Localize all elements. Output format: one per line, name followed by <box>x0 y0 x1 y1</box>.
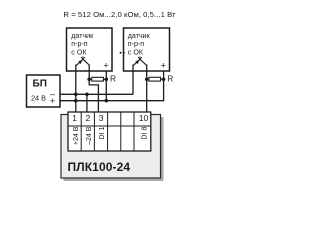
svg-text:+24 В: +24 В <box>73 126 80 145</box>
svg-text:1: 1 <box>72 113 77 123</box>
wire: plus bus from PSU <box>60 100 164 102</box>
svg-text:3: 3 <box>99 113 104 123</box>
wire: sensor1 plus lead down to plus bus <box>105 71 107 101</box>
terminal block <box>68 112 151 151</box>
wire: minus bus from PSU <box>60 93 133 95</box>
sensor 1 box (npn with OC) <box>67 28 113 71</box>
svg-text:БП: БП <box>33 79 47 90</box>
svg-text:+: + <box>103 60 108 70</box>
terminal labels rotated <box>73 126 149 145</box>
svg-text:R: R <box>167 73 173 83</box>
wire: sensor2 plus lead down to plus bus end <box>163 71 165 101</box>
svg-text:датчик: датчик <box>71 32 94 40</box>
terminal numbers <box>72 113 148 123</box>
transistor symbol sensor 1 <box>76 56 90 65</box>
svg-text:24 В: 24 В <box>31 93 46 102</box>
svg-text:+: + <box>50 96 55 106</box>
svg-text:с ОК: с ОК <box>128 49 144 57</box>
wire: sensor2 emitter leg down to minus bus end <box>132 65 134 95</box>
resistor R sensor2 <box>147 73 174 83</box>
svg-text:DI 8: DI 8 <box>142 126 149 139</box>
svg-text:–24 В: –24 В <box>86 126 93 145</box>
PLC100-24 grey body <box>61 115 164 182</box>
wire: minus bus to terminal 2 <box>86 94 88 112</box>
svg-text:ПЛК100-24: ПЛК100-24 <box>68 160 131 174</box>
svg-text:R: R <box>110 73 116 83</box>
power supply BP 24V <box>27 75 61 107</box>
svg-text:R = 512 Ом...2,0 кОм, 0,5...1: R = 512 Ом...2,0 кОм, 0,5...1 Вт <box>63 10 176 19</box>
svg-text:2: 2 <box>86 113 91 123</box>
resistor R sensor1 <box>89 73 116 83</box>
svg-text:с ОК: с ОК <box>71 49 87 57</box>
svg-text:DI 1: DI 1 <box>99 126 106 139</box>
svg-text:+: + <box>161 60 166 70</box>
wire: sensor1 collector leg to DI1 (terminal 3) <box>89 65 98 113</box>
sensor 2 box (npn with OC) <box>124 28 170 71</box>
svg-text:п-р-п: п-р-п <box>71 40 88 48</box>
svg-text:п-р-п: п-р-п <box>128 40 145 48</box>
wire: sensor1 emitter leg down to terminal 1 <box>75 65 77 113</box>
svg-text:10: 10 <box>139 113 149 123</box>
junction dots sensor2 <box>145 77 149 81</box>
junction dots sensor1 <box>87 77 91 81</box>
wire: sensor2 collector leg to DI8 (terminal 10) <box>146 65 148 113</box>
svg-text:датчик: датчик <box>128 32 151 40</box>
stray print dots <box>120 52 122 54</box>
transistor symbol sensor 2 <box>133 56 147 65</box>
